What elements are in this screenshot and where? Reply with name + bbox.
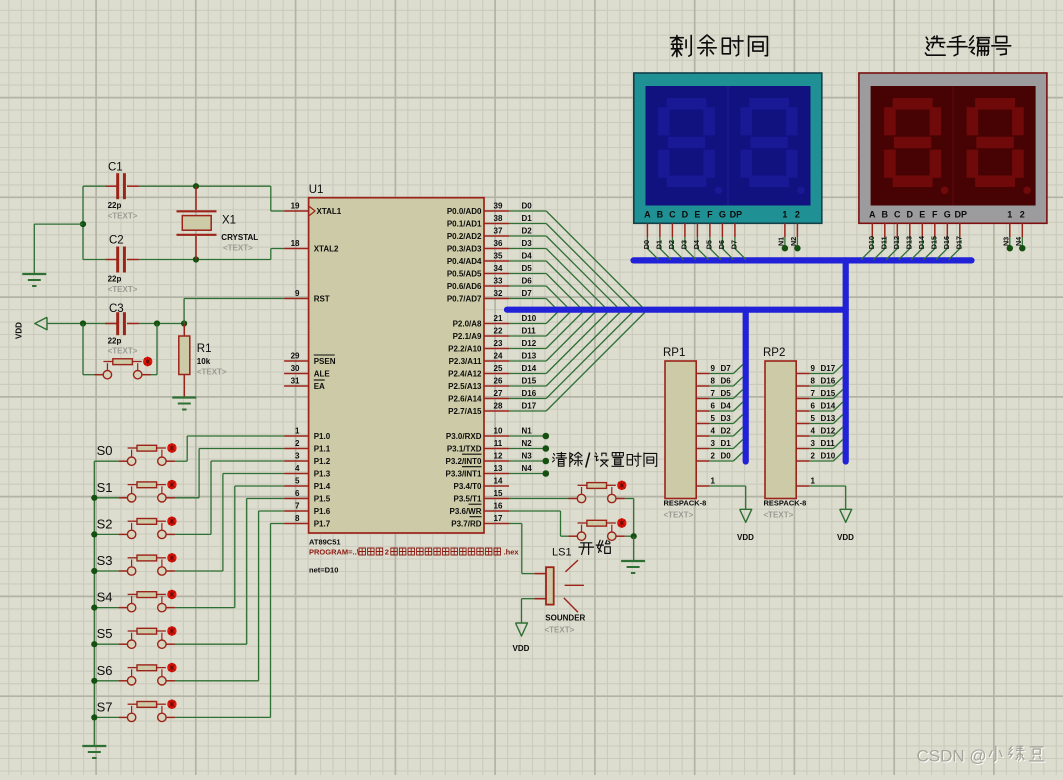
wires D0-D7 from P0 to bus (509, 210, 546, 212)
svg-text:D17: D17 (821, 364, 836, 373)
svg-text:N3: N3 (522, 452, 533, 461)
pin D6 display segment (721, 223, 723, 237)
junction RST/R1 node (181, 320, 187, 326)
pin 31 EA (284, 385, 309, 387)
svg-text:D3: D3 (680, 240, 689, 249)
svg-text:VDD: VDD (737, 533, 754, 542)
svg-text:D13: D13 (905, 236, 914, 249)
wire S4 to P1.4 (175, 607, 235, 609)
svg-text:D16: D16 (522, 389, 537, 398)
svg-text:D10: D10 (522, 314, 537, 323)
svg-text:RESPACK-8: RESPACK-8 (764, 499, 807, 508)
svg-text:D7: D7 (730, 240, 739, 249)
svg-text:B: B (882, 209, 889, 219)
svg-text:D10: D10 (821, 452, 836, 461)
svg-text:1: 1 (811, 477, 816, 486)
svg-text:PSEN: PSEN (314, 357, 336, 366)
svg-text:C: C (669, 209, 676, 219)
wire P3.6 to start button (509, 510, 561, 512)
wire reset button right leg (156, 324, 158, 375)
svg-text:D10: D10 (867, 236, 876, 249)
svg-text:2: 2 (811, 452, 816, 461)
pin 5 RP1 (696, 423, 709, 425)
svg-text:<TEXT>: <TEXT> (223, 244, 253, 253)
push button (clear/set) (578, 484, 587, 486)
svg-text:<TEXT>: <TEXT> (108, 347, 138, 356)
svg-text:A: A (869, 209, 876, 219)
svg-text:P3.1/TXD: P3.1/TXD (447, 445, 482, 454)
power flag VDD (sounder) (516, 623, 528, 636)
pin 7 RP1 (696, 398, 709, 400)
wire clear button right (625, 498, 634, 500)
pin 8 RP1 (696, 385, 709, 387)
svg-text:SOUNDER: SOUNDER (545, 614, 585, 623)
svg-text:P3.3/INT1: P3.3/INT1 (445, 470, 482, 479)
svg-text:P2.3/A11: P2.3/A11 (449, 357, 482, 366)
junction rail S1 (91, 495, 97, 501)
pins 39-32 P0.0/AD0-P0.7/AD7 (484, 210, 509, 212)
wire D13 to bus (809, 423, 833, 425)
svg-text:net=D10: net=D10 (309, 566, 338, 575)
wire S5 left (94, 643, 118, 645)
svg-text:13: 13 (494, 464, 503, 473)
svg-text:S0: S0 (97, 443, 113, 458)
pin N1 display common (784, 223, 786, 237)
pin 19 XTAL1 (284, 210, 309, 212)
wire left common rail of S buttons (93, 461, 95, 746)
svg-text:S6: S6 (97, 663, 113, 678)
pin D7 display segment (734, 223, 736, 237)
svg-text:D0: D0 (522, 202, 533, 211)
wire S6 to P1.6 (175, 680, 259, 682)
wire D11 to bus (809, 448, 833, 450)
svg-text:<TEXT>: <TEXT> (764, 511, 794, 520)
wire left rail C1-C2 (82, 186, 84, 259)
svg-text:31: 31 (291, 377, 300, 386)
pins 21-28 P2.0/A8-P2.7/A15 (484, 323, 509, 325)
pin D10 display segment (871, 223, 873, 237)
svg-text:9: 9 (295, 289, 300, 298)
svg-text:9: 9 (711, 364, 716, 373)
svg-text:P3.5/T1: P3.5/T1 (453, 495, 482, 504)
svg-text:N4: N4 (1014, 237, 1023, 246)
pin N3 display common (1009, 223, 1011, 237)
pin D5 display segment (709, 223, 711, 237)
svg-text:EA: EA (314, 382, 325, 391)
svg-text:7: 7 (811, 389, 816, 398)
svg-text:3: 3 (811, 439, 816, 448)
svg-text:22p: 22p (108, 337, 122, 346)
wire D16 to bus (809, 385, 833, 387)
wire S5 to P1.5 (175, 643, 247, 645)
svg-text:RESPACK-8: RESPACK-8 (664, 499, 707, 508)
wires D10-D17 from P2 to bus (509, 323, 546, 325)
bus (P0/P2 data, horizontal) (507, 307, 846, 313)
svg-text:4: 4 (811, 427, 816, 436)
svg-text:14: 14 (494, 477, 503, 486)
svg-text:D7: D7 (522, 289, 533, 298)
svg-text:11: 11 (494, 439, 503, 448)
svg-text:5: 5 (295, 477, 300, 486)
svg-text:2: 2 (295, 439, 300, 448)
svg-text:16: 16 (494, 502, 503, 511)
svg-text:37: 37 (494, 227, 503, 236)
wire start button right to ground (625, 535, 634, 537)
ground (R1) (172, 396, 196, 398)
pin 2 RP2 (796, 460, 809, 462)
svg-text:D1: D1 (655, 240, 664, 249)
pin D0 display segment (646, 223, 648, 237)
wire RP1 pin1 to VDD (709, 485, 745, 487)
svg-text:12: 12 (494, 452, 503, 461)
svg-text:4: 4 (711, 427, 716, 436)
svg-text:P1.0: P1.0 (314, 432, 331, 441)
svg-text:D4: D4 (692, 240, 701, 249)
pin 4 RP1 (696, 435, 709, 437)
svg-text:2: 2 (711, 452, 716, 461)
pin 3 RP2 (796, 448, 809, 450)
pin 30 ALE (284, 373, 309, 375)
svg-text:6: 6 (295, 489, 300, 498)
junction rail S3 (91, 568, 97, 574)
svg-text:D13: D13 (821, 414, 836, 423)
svg-text:D: D (682, 209, 689, 219)
svg-text:D16: D16 (821, 377, 836, 386)
svg-text:F: F (707, 209, 713, 219)
pin N2 display common (796, 223, 798, 237)
svg-text:D15: D15 (522, 377, 537, 386)
svg-text:21: 21 (494, 314, 503, 323)
wire D4 to bus (709, 410, 733, 412)
svg-text:D5: D5 (721, 389, 732, 398)
svg-text:<TEXT>: <TEXT> (108, 212, 138, 221)
svg-text:N1: N1 (522, 427, 533, 436)
wire S7 left (94, 716, 118, 718)
wire C2 left (83, 259, 105, 261)
junction rail S4 (91, 605, 97, 611)
svg-text:D15: D15 (930, 236, 939, 249)
svg-text:<TEXT>: <TEXT> (664, 511, 694, 520)
svg-text:P0.3/AD3: P0.3/AD3 (447, 245, 482, 254)
wire sounder to VDD (522, 598, 535, 600)
svg-text:P1.3: P1.3 (314, 470, 331, 479)
junction reset button right branch (154, 320, 160, 326)
wire RP2 pin1 to VDD (809, 485, 845, 487)
svg-text:1: 1 (295, 427, 300, 436)
svg-text:N4: N4 (522, 464, 533, 473)
svg-text:DP: DP (955, 209, 968, 219)
svg-text:F: F (932, 209, 938, 219)
svg-text:N2: N2 (522, 439, 533, 448)
pin N4 display common (1021, 223, 1023, 237)
label 开始 (579, 543, 594, 555)
pin 8 RP2 (796, 385, 809, 387)
svg-text:C1: C1 (108, 162, 123, 174)
svg-text:N3: N3 (1002, 237, 1011, 246)
wire C1 right to XTAL1 pin 19 (139, 185, 271, 187)
svg-text:P3.7/RD: P3.7/RD (451, 520, 481, 529)
svg-text:D6: D6 (717, 240, 726, 249)
svg-text:S4: S4 (97, 590, 113, 605)
power flag VDD (RP2) (840, 509, 852, 522)
svg-text:30: 30 (291, 364, 300, 373)
svg-text:D3: D3 (721, 414, 732, 423)
svg-text:32: 32 (494, 289, 503, 298)
junction start/clear ground node (631, 533, 637, 539)
svg-text:P1.5: P1.5 (314, 495, 331, 504)
svg-text:P2.7/A15: P2.7/A15 (448, 407, 482, 416)
svg-text:2: 2 (1020, 209, 1025, 219)
pin 2 RP1 (696, 460, 709, 462)
svg-text:C: C (894, 209, 901, 219)
pin 1 RP1 (696, 485, 709, 487)
svg-text:XTAL2: XTAL2 (314, 245, 339, 254)
svg-text:PROGRAM=..\: PROGRAM=..\ (309, 548, 360, 557)
svg-text:D2: D2 (721, 427, 732, 436)
svg-text:P1.2: P1.2 (314, 457, 331, 466)
push button (reset) (103, 361, 112, 363)
svg-text:G: G (944, 209, 951, 219)
svg-text:LS1: LS1 (552, 547, 572, 559)
svg-text:6: 6 (811, 402, 816, 411)
svg-text:28: 28 (494, 402, 503, 411)
wire S2 to P1.2 (175, 533, 211, 535)
svg-text:VDD: VDD (15, 322, 24, 339)
wire S7 to P1.7 (175, 716, 271, 718)
svg-text:15: 15 (494, 489, 503, 498)
svg-text:D2: D2 (667, 240, 676, 249)
wire S4 left (94, 607, 118, 609)
svg-text:22p: 22p (108, 201, 122, 210)
svg-text:P0.1/AD1: P0.1/AD1 (447, 220, 482, 229)
svg-text:VDD: VDD (837, 533, 854, 542)
wire S1 left (94, 497, 118, 499)
bus (vertical to RP1) (743, 310, 749, 462)
svg-text:8: 8 (295, 514, 300, 523)
svg-text:5: 5 (811, 414, 816, 423)
svg-text:P2.5/A13: P2.5/A13 (448, 382, 482, 391)
svg-text:P1.4: P1.4 (314, 482, 331, 491)
label 清除/设置时间 (553, 452, 567, 466)
svg-text:5: 5 (711, 414, 716, 423)
wire RST to chip pin 9 (183, 299, 185, 324)
svg-text:RP1: RP1 (663, 347, 685, 359)
svg-text:D1: D1 (522, 214, 533, 223)
svg-text:D5: D5 (705, 240, 714, 249)
svg-text:8: 8 (711, 377, 716, 386)
svg-text:P0.7/AD7: P0.7/AD7 (447, 295, 482, 304)
pin 6 RP2 (796, 410, 809, 412)
svg-text:24: 24 (494, 352, 503, 361)
svg-text:D12: D12 (892, 236, 901, 249)
svg-text:2: 2 (385, 548, 389, 557)
pin D3 display segment (684, 223, 686, 237)
svg-text:CSDN @: CSDN @ (917, 747, 987, 766)
wire C1 left (83, 185, 105, 187)
wire D7 to bus (709, 373, 733, 375)
pin D2 display segment (671, 223, 673, 237)
bus (vertical to RP2) (843, 260, 849, 461)
junction rail S6 (91, 678, 97, 684)
svg-text:25: 25 (494, 364, 503, 373)
svg-text:B: B (657, 209, 664, 219)
svg-text:D0: D0 (721, 452, 732, 461)
svg-text:1: 1 (711, 477, 716, 486)
svg-text:D4: D4 (522, 252, 533, 261)
wire D1 to bus (709, 448, 733, 450)
pin D13 display segment (909, 223, 911, 237)
svg-text:D13: D13 (522, 352, 537, 361)
svg-text:29: 29 (291, 352, 300, 361)
wire D17 to bus (809, 373, 833, 375)
wire S3 to P1.3 (175, 570, 223, 572)
svg-text:3: 3 (711, 439, 716, 448)
svg-text:P3.6/WR: P3.6/WR (449, 507, 481, 516)
svg-text:22: 22 (494, 327, 503, 336)
svg-text:D17: D17 (955, 236, 964, 249)
junction C3 left branch (80, 320, 86, 326)
pins 10-17 P3.0-P3.7 (484, 435, 509, 437)
svg-text:4: 4 (295, 464, 300, 473)
svg-text:VDD: VDD (513, 644, 530, 653)
junction C1 row (193, 183, 199, 189)
svg-text:33: 33 (494, 277, 503, 286)
svg-text:S1: S1 (97, 480, 113, 495)
pin D12 display segment (896, 223, 898, 237)
svg-text:8: 8 (811, 377, 816, 386)
svg-text:D: D (907, 209, 914, 219)
svg-text:E: E (919, 209, 925, 219)
pin 7 RP2 (796, 398, 809, 400)
wire S3 left (94, 570, 118, 572)
svg-text:E: E (694, 209, 700, 219)
svg-text:39: 39 (494, 202, 503, 211)
svg-text:1: 1 (782, 209, 787, 219)
wire S0 left (94, 460, 118, 462)
svg-text:D7: D7 (721, 364, 732, 373)
svg-text:P0.2/AD2: P0.2/AD2 (447, 232, 482, 241)
svg-text:RST: RST (314, 295, 330, 304)
pin 3 RP1 (696, 448, 709, 450)
svg-text:P0.5/AD5: P0.5/AD5 (447, 270, 482, 279)
svg-text:26: 26 (494, 377, 503, 386)
svg-text:U1: U1 (309, 184, 324, 196)
svg-text:D14: D14 (821, 402, 836, 411)
op-amp U1 AT89C51 microcontroller body (309, 198, 484, 533)
svg-text:P0.4/AD4: P0.4/AD4 (447, 257, 482, 266)
svg-text:10: 10 (494, 427, 503, 436)
svg-text:A: A (644, 209, 651, 219)
svg-text:AT89C51: AT89C51 (309, 538, 341, 547)
svg-text:P2.6/A14: P2.6/A14 (448, 395, 482, 404)
ground (S buttons rail) (82, 745, 106, 747)
label 选手编号 (player number title) (925, 36, 945, 55)
wire P3.5 to clear button (509, 498, 569, 500)
pin D11 display segment (884, 223, 886, 237)
wire D5 to bus (709, 398, 733, 400)
pin 18 XTAL2 (284, 248, 309, 250)
svg-text:P2.2/A10: P2.2/A10 (448, 345, 482, 354)
svg-text:N1: N1 (777, 237, 786, 246)
svg-text:3: 3 (295, 452, 300, 461)
svg-text:P1.6: P1.6 (314, 507, 331, 516)
pin 9 RP1 (696, 373, 709, 375)
wire S0 to P1.0 (175, 460, 187, 462)
svg-text:DP: DP (730, 209, 743, 219)
svg-text:7: 7 (711, 389, 716, 398)
pin 9 RP2 (796, 373, 809, 375)
power flag VDD (left) (35, 317, 47, 330)
svg-text:18: 18 (291, 239, 300, 248)
svg-text:22p: 22p (108, 275, 122, 284)
junction C2 row (193, 256, 199, 262)
pin D16 display segment (946, 223, 948, 237)
svg-text:10k: 10k (197, 357, 211, 366)
wire P3.7 to sounder (509, 523, 522, 525)
junction left rail (80, 221, 86, 227)
svg-text:D11: D11 (522, 327, 537, 336)
svg-text:2: 2 (795, 209, 800, 219)
svg-text:XTAL1: XTAL1 (317, 207, 342, 216)
wire D2 to bus (709, 435, 733, 437)
7-segment display (剩余时间 remaining time) (634, 73, 822, 223)
ground (start button) (621, 560, 645, 562)
svg-text:D14: D14 (522, 364, 537, 373)
pin D15 display segment (934, 223, 936, 237)
svg-text:D4: D4 (721, 402, 732, 411)
svg-text:D11: D11 (821, 439, 836, 448)
wire reset button left leg (82, 324, 84, 375)
crystal X1 (195, 186, 197, 210)
svg-text:P3.0/RXD: P3.0/RXD (446, 432, 482, 441)
pin D17 display segment (959, 223, 961, 237)
svg-text:36: 36 (494, 239, 503, 248)
svg-text:R1: R1 (197, 343, 212, 355)
svg-text:X1: X1 (222, 215, 236, 227)
wires N1-N4 from P3.0-P3.3 (509, 435, 546, 437)
svg-text:CRYSTAL: CRYSTAL (221, 233, 258, 242)
svg-text:P1.7: P1.7 (314, 520, 331, 529)
svg-text:D16: D16 (942, 236, 951, 249)
svg-text:D6: D6 (721, 377, 732, 386)
svg-text:34: 34 (494, 264, 503, 273)
svg-text:27: 27 (494, 389, 503, 398)
power flag VDD (RP1) (740, 509, 752, 522)
wire S6 left (94, 680, 118, 682)
svg-text:D6: D6 (522, 277, 533, 286)
wire D12 to bus (809, 435, 833, 437)
wire D6 to bus (709, 385, 733, 387)
svg-text:7: 7 (295, 502, 300, 511)
svg-text:P3.2/INT0: P3.2/INT0 (445, 457, 482, 466)
svg-text:1: 1 (1007, 209, 1012, 219)
junction rail S2 (91, 531, 97, 537)
svg-text:D5: D5 (522, 264, 533, 273)
svg-text:.hex: .hex (504, 548, 520, 557)
resistor R1 (183, 324, 185, 337)
7-segment display (选手编号 player number) (859, 73, 1047, 223)
svg-text:D12: D12 (522, 339, 537, 348)
svg-text:D12: D12 (821, 427, 836, 436)
svg-text:D14: D14 (917, 236, 926, 249)
pin 5 RP2 (796, 423, 809, 425)
svg-text:RP2: RP2 (763, 347, 785, 359)
pin D14 display segment (921, 223, 923, 237)
pin 6 RP1 (696, 410, 709, 412)
wire C2 right to XTAL2 pin 18 (139, 259, 271, 261)
wire to ground (osc) (34, 223, 83, 225)
svg-text:S2: S2 (97, 516, 113, 531)
